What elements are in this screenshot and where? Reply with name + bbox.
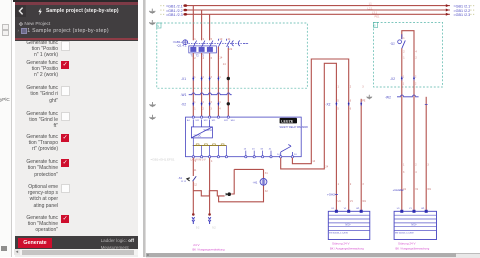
svg-text:4: 4 [219,76,221,79]
svg-text:SUPPLY: SUPPLY [204,129,214,132]
bus line L1 [183,4,450,7]
safety relay top pin labels [187,119,235,122]
svg-text:W1: W1 [427,188,431,191]
svg-text:1: 1 [194,108,196,111]
svg-text:24VDC: 24VDC [194,135,202,138]
wire motor M1 phase V routing [281,63,337,211]
terminal row X3 for motor M1 [325,85,365,110]
svg-text:13: 13 [244,149,247,151]
wire drop L3 to Q1 [209,14,211,40]
terminal strip X4 row [390,76,417,86]
svg-text:1: 1 [338,85,340,88]
svg-text:1: 1 [403,82,405,85]
wire K1 pin down left branch [192,158,194,214]
safety relay top pins [192,116,229,118]
cable marker W4 [393,188,404,192]
Q1 overload thermal elements [189,46,217,57]
svg-text:2: 2 [415,76,417,79]
svg-text:4: 4 [211,160,213,163]
svg-text:4: 4 [219,108,221,111]
svg-text:S21: S21 [212,120,217,122]
svg-text:3: 3 [403,171,405,174]
svg-text:1: 1 [194,37,196,41]
svg-text:6: 6 [211,56,213,60]
svg-text:3: 3 [211,101,213,104]
svg-text:6: 6 [350,99,352,102]
svg-text:W1: W1 [362,200,366,203]
svg-text:BK / Ausgangsverdrahtung: BK / Ausgangsverdrahtung [193,247,225,251]
svg-text:24 V: 24 V [193,243,199,247]
structure box GH2 name tag [374,22,378,27]
svg-text:S12: S12 [204,120,209,122]
cogineer panel list background [12,0,139,257]
svg-text:X1: X1 [265,172,269,175]
list items [20,40,58,58]
svg-text:EN 60034-1 2,2kW: EN 60034-1 2,2kW [395,232,414,234]
svg-text:23: 23 [252,149,255,151]
cable W2 row [385,95,419,99]
svg-text:=GB1 /2.1: =GB1 /2.1 [454,4,471,8]
source arrow dot left branch [192,213,195,216]
svg-text:2: 2 [350,85,352,88]
svg-text:-W2: -W2 [385,95,391,99]
cable W1 row [181,93,232,97]
cable marker W3 [327,193,338,197]
svg-text:-X2: -X2 [390,77,395,81]
svg-text:13: 13 [219,37,222,41]
svg-text:=GB1 /2.3: =GB1 /2.3 [454,13,471,17]
svg-text:11 12: 11 12 [181,181,187,183]
svg-text:U1: U1 [338,200,342,203]
svg-text:5: 5 [337,107,339,110]
svg-text:M 3~: M 3~ [346,224,352,227]
svg-text:9.2: 9.2 [196,227,200,230]
svg-text:14: 14 [277,154,280,156]
wire K1 pin down right branch [209,158,211,214]
junction black dot [226,192,231,196]
svg-text:1: 1 [194,76,196,79]
svg-text:V1: V1 [344,208,347,210]
svg-text:3: 3 [362,85,364,88]
svg-text:PE1: PE1 [375,15,380,19]
motor breaker Q1 device label [173,40,189,48]
svg-text:2: 2 [203,101,205,104]
svg-text:3: 3 [203,37,205,41]
svg-text:14: 14 [312,160,315,163]
svg-text:24: 24 [294,154,297,156]
Q1 pin numbers [194,37,232,66]
svg-text:G: G [157,25,159,28]
svg-text:V1: V1 [415,188,419,191]
svg-text:-W1: -W1 [181,93,187,97]
svg-text:L1: L1 [369,2,372,6]
svg-text:1: 1 [194,101,196,104]
wire drop L1 to Q1 [192,6,194,41]
svg-text:3: 3 [362,183,364,186]
svg-text:PE: PE [362,99,366,102]
svg-text:3: 3 [211,76,213,79]
wire drop L2 to Q1 [201,10,203,40]
buzzer H1 [253,172,269,193]
svg-text:U1: U1 [331,208,335,210]
dark overlay with project header [15,0,139,41]
svg-text:-H1: -H1 [253,180,258,184]
safety relay internal bus [193,145,227,147]
svg-text:1: 1 [338,183,340,186]
svg-text:24: 24 [325,165,328,168]
splitter line between panel and page [143,0,144,257]
svg-text:6: 6 [350,107,352,110]
bus line L2 [183,9,450,12]
wire loop feed Q2 [402,31,414,212]
svg-text:-X2: -X2 [325,102,330,106]
svg-text:Störung 24 V: Störung 24 V [332,242,350,246]
svg-text:G: G [374,24,376,27]
svg-text:+GH2: +GH2 [327,193,335,197]
buzzer H1 loop wire [219,169,264,201]
schematic SVG goes here [146,0,480,257]
svg-text:1: 1 [403,37,405,40]
motor breaker Q2 [390,34,418,211]
svg-text:5: 5 [337,99,339,102]
panel horizontal scrollbar [14,249,139,255]
source arrow dot right branch [208,213,211,216]
svg-text:1: 1 [403,56,405,59]
svg-text:3: 3 [427,164,429,167]
svg-text:-X1: -X1 [181,77,186,81]
svg-text:11: 11 [194,169,197,172]
svg-text:S34: S34 [231,120,236,122]
svg-text:2: 2 [203,76,205,79]
svg-text:1: 1 [403,76,405,79]
svg-text:21: 21 [228,37,231,41]
svg-text:12: 12 [194,183,197,186]
safety relay K1 box [186,117,302,157]
safety relay output relay contact [281,145,293,156]
wire motor M1 PE [360,99,362,212]
motor M1 wire pin texts [312,160,366,203]
svg-text:33: 33 [260,149,263,151]
svg-text:+GH2: +GH2 [393,188,401,192]
svg-text:2: 2 [403,50,405,53]
safety relay bottom pins [192,156,227,158]
emergency stop switch S2 [178,160,213,186]
svg-text:V1: V1 [409,208,412,210]
structure box GH2 dashed [374,22,443,87]
interruption target symbol right [208,217,211,224]
svg-text:14: 14 [219,55,222,59]
wire number labels near x=370 [368,2,380,19]
svg-text:Störung 24 V: Störung 24 V [398,242,416,246]
svg-text:A1: A1 [187,119,190,122]
svg-text:4: 4 [415,50,417,53]
svg-text:EN 60034-1 2,2kW: EN 60034-1 2,2kW [329,232,348,234]
motor breaker Q1 [183,39,248,48]
structure box cabinet GH1 dashed [157,23,307,88]
safety relay output contact stubs [246,151,271,156]
svg-text:-X2: -X2 [181,103,186,107]
terminal strip X2 row [181,101,230,111]
svg-text:4: 4 [219,101,221,104]
svg-text:BK / Ausgangsüberwachung: BK / Ausgangsüberwachung [396,246,430,250]
svg-text:=GB1 /2.1: =GB1 /2.1 [166,4,183,8]
svg-text:2: 2 [350,183,352,186]
svg-text:W1: W1 [421,208,425,210]
terminal strip X1 row [181,76,230,81]
svg-text:2: 2 [415,56,417,59]
wire motor M1 phase U routing [292,59,348,211]
svg-text:S22: S22 [224,120,229,122]
svg-text:M 3~: M 3~ [412,224,418,227]
svg-text:M 0 V: M 0 V [199,159,206,162]
safety relay internal drops to bottom pins [193,138,226,156]
motor M2 wire pin texts [403,164,432,191]
svg-text:LEUZE: LEUZE [281,119,294,123]
svg-text:3: 3 [211,108,213,111]
wire Q1 pole outputs down [193,53,209,117]
svg-text:=GB1+GH1.EFS1: =GB1+GH1.EFS1 [151,157,175,161]
svg-text:9.2: 9.2 [212,227,216,230]
svg-text:SAFETY RELAY MSI-SR4B: SAFETY RELAY MSI-SR4B [280,126,309,129]
bus line L3 [183,13,450,16]
svg-text:4: 4 [415,171,417,174]
svg-text:-Q2: -Q2 [390,42,395,46]
interruption target symbol left [192,217,195,224]
svg-text:W1: W1 [356,208,360,210]
svg-text:-S1: -S1 [178,176,183,180]
svg-text:4: 4 [203,56,205,60]
svg-text:=GB1 /2.3: =GB1 /2.3 [166,13,183,17]
left docked strip of background app [0,0,12,257]
svg-text:L2.1: L2.1 [368,6,374,10]
svg-text:2: 2 [203,108,205,111]
pin potential labels under K1 [191,159,206,162]
svg-text:L3.1: L3.1 [372,11,378,15]
svg-text:5: 5 [211,37,213,41]
bottom bar with Generate button [15,236,139,250]
motor terminal box M1 [328,208,370,239]
svg-text:V1: V1 [350,200,354,203]
motor terminal box M2 [394,208,436,239]
svg-text:U1: U1 [397,208,401,210]
safety relay power supply symbol [191,120,212,138]
svg-text:22: 22 [229,47,232,51]
svg-text:BK / Ausgangsüberwachung: BK / Ausgangsüberwachung [330,246,364,250]
svg-text:2: 2 [415,164,417,167]
svg-text:2: 2 [415,82,417,85]
wire aux contacts down [218,47,228,117]
interruption point anchor symbols left margin [149,9,371,120]
structure box GH1 name tag [157,23,161,28]
svg-text:14: 14 [223,62,226,66]
LEUZE logo [280,118,297,124]
wire motor M2 PE [425,97,427,212]
schematic horizontal scrollbar [146,253,480,258]
svg-text:X2: X2 [265,190,269,193]
svg-text:41: 41 [269,149,272,151]
grid reference dots [160,5,474,15]
svg-text:U1: U1 [403,188,407,191]
svg-text:S11: S11 [195,120,200,122]
svg-text:1: 1 [403,164,405,167]
wire S2 to PE junction staircase jumper [193,191,224,196]
